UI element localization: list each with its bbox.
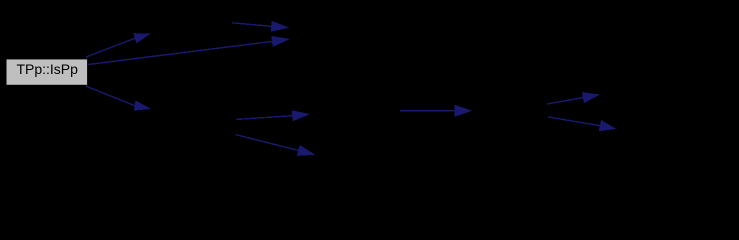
wire edge5: node3 to node4 [237, 116, 293, 120]
arrowhead edge3 [271, 36, 290, 47]
arrowhead edge4 [134, 101, 152, 111]
arrowhead edge5 [292, 110, 310, 121]
arrowhead edge7 [455, 105, 473, 117]
wire edge9: node6 to node8 [548, 117, 600, 126]
svg-text:TPp::IsPp: TPp::IsPp [16, 61, 78, 77]
arrowhead edge2 [271, 21, 289, 32]
node TPp::IsPp [6, 59, 88, 85]
wire edge4: TPp::IsPp to node3 [86, 86, 135, 106]
wire edge3: TPp::IsPp to node2 [88, 41, 272, 64]
arrowhead edge1 [133, 33, 151, 43]
wire edge7: node4 to node6 [400, 110, 455, 112]
wire edge2: node1 to node2 [232, 23, 271, 27]
wire edge6: node3 to node5 [236, 135, 299, 151]
wire edge1: TPp::IsPp to node1 [86, 38, 135, 57]
wire edge8: node6 to node7 [547, 98, 583, 104]
arrowhead edge8 [582, 92, 600, 103]
arrowhead edge9 [599, 120, 617, 131]
arrowhead edge6 [297, 145, 315, 156]
